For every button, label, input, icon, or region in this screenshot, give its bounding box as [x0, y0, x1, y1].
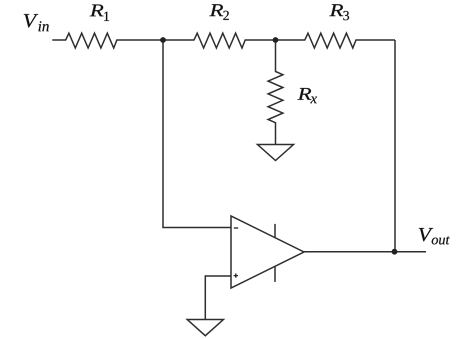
wire inverting input from node A [163, 40, 231, 228]
label R1 [90, 5, 109, 21]
op-amp negative supply pin [274, 266, 276, 282]
wire output [304, 251, 426, 253]
resistor R1 [52, 33, 163, 48]
wire non-inverting input [205, 276, 231, 320]
resistor Rx [268, 40, 283, 145]
op-amp U1 [231, 216, 304, 288]
op-amp positive supply pin [274, 224, 276, 238]
label R2 [209, 4, 228, 20]
node B junction dot [273, 37, 279, 43]
label Rx [298, 88, 317, 103]
label Vout [419, 228, 450, 245]
label R3 [329, 4, 349, 20]
wire feedback right vertical [394, 40, 396, 252]
node Vout junction dot [392, 249, 398, 255]
resistor R3 [276, 33, 396, 48]
op-amp minus pin label [234, 227, 238, 229]
node A junction dot [160, 37, 166, 43]
op-amp plus pin label [234, 273, 238, 277]
ground (non-inverting input) [187, 320, 223, 336]
label Vin [24, 14, 49, 31]
resistor R2 [163, 33, 276, 48]
ground (below Rx) [258, 145, 294, 161]
